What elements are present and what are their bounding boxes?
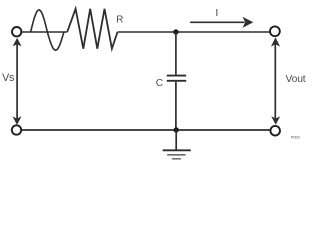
svg-text:mco: mco xyxy=(291,135,300,140)
terminal top-right xyxy=(270,26,280,36)
current arrow I wire xyxy=(190,21,244,23)
wire top rail left segment xyxy=(21,31,67,33)
node junction bottom xyxy=(174,127,179,132)
svg-text:I: I xyxy=(215,7,218,19)
Vout arrowhead down xyxy=(271,116,280,125)
wire bottom rail xyxy=(21,129,270,131)
wire capacitor upper xyxy=(175,32,177,75)
AC source sine wave xyxy=(31,10,64,50)
svg-text:Vs: Vs xyxy=(2,72,14,84)
terminal bottom-left xyxy=(12,125,21,134)
Vout arrow stem xyxy=(274,44,276,119)
svg-text:C: C xyxy=(156,78,163,89)
wire capacitor lower xyxy=(175,82,177,130)
Vs arrowhead up xyxy=(13,38,22,47)
resistor R xyxy=(67,9,117,49)
Vout arrowhead up xyxy=(271,37,280,46)
wire top rail right segment xyxy=(118,31,271,33)
Vs arrowhead down xyxy=(13,116,22,125)
ground xyxy=(163,150,191,159)
capacitor C plates xyxy=(167,76,186,81)
terminal bottom-right xyxy=(270,126,280,136)
Vs arrow stem xyxy=(16,44,18,119)
current arrow I head xyxy=(242,17,253,28)
terminal top-left xyxy=(12,27,21,36)
wire ground stem xyxy=(175,130,177,150)
svg-text:Vout: Vout xyxy=(286,74,306,85)
svg-text:R: R xyxy=(116,15,123,26)
node junction top xyxy=(173,29,178,34)
